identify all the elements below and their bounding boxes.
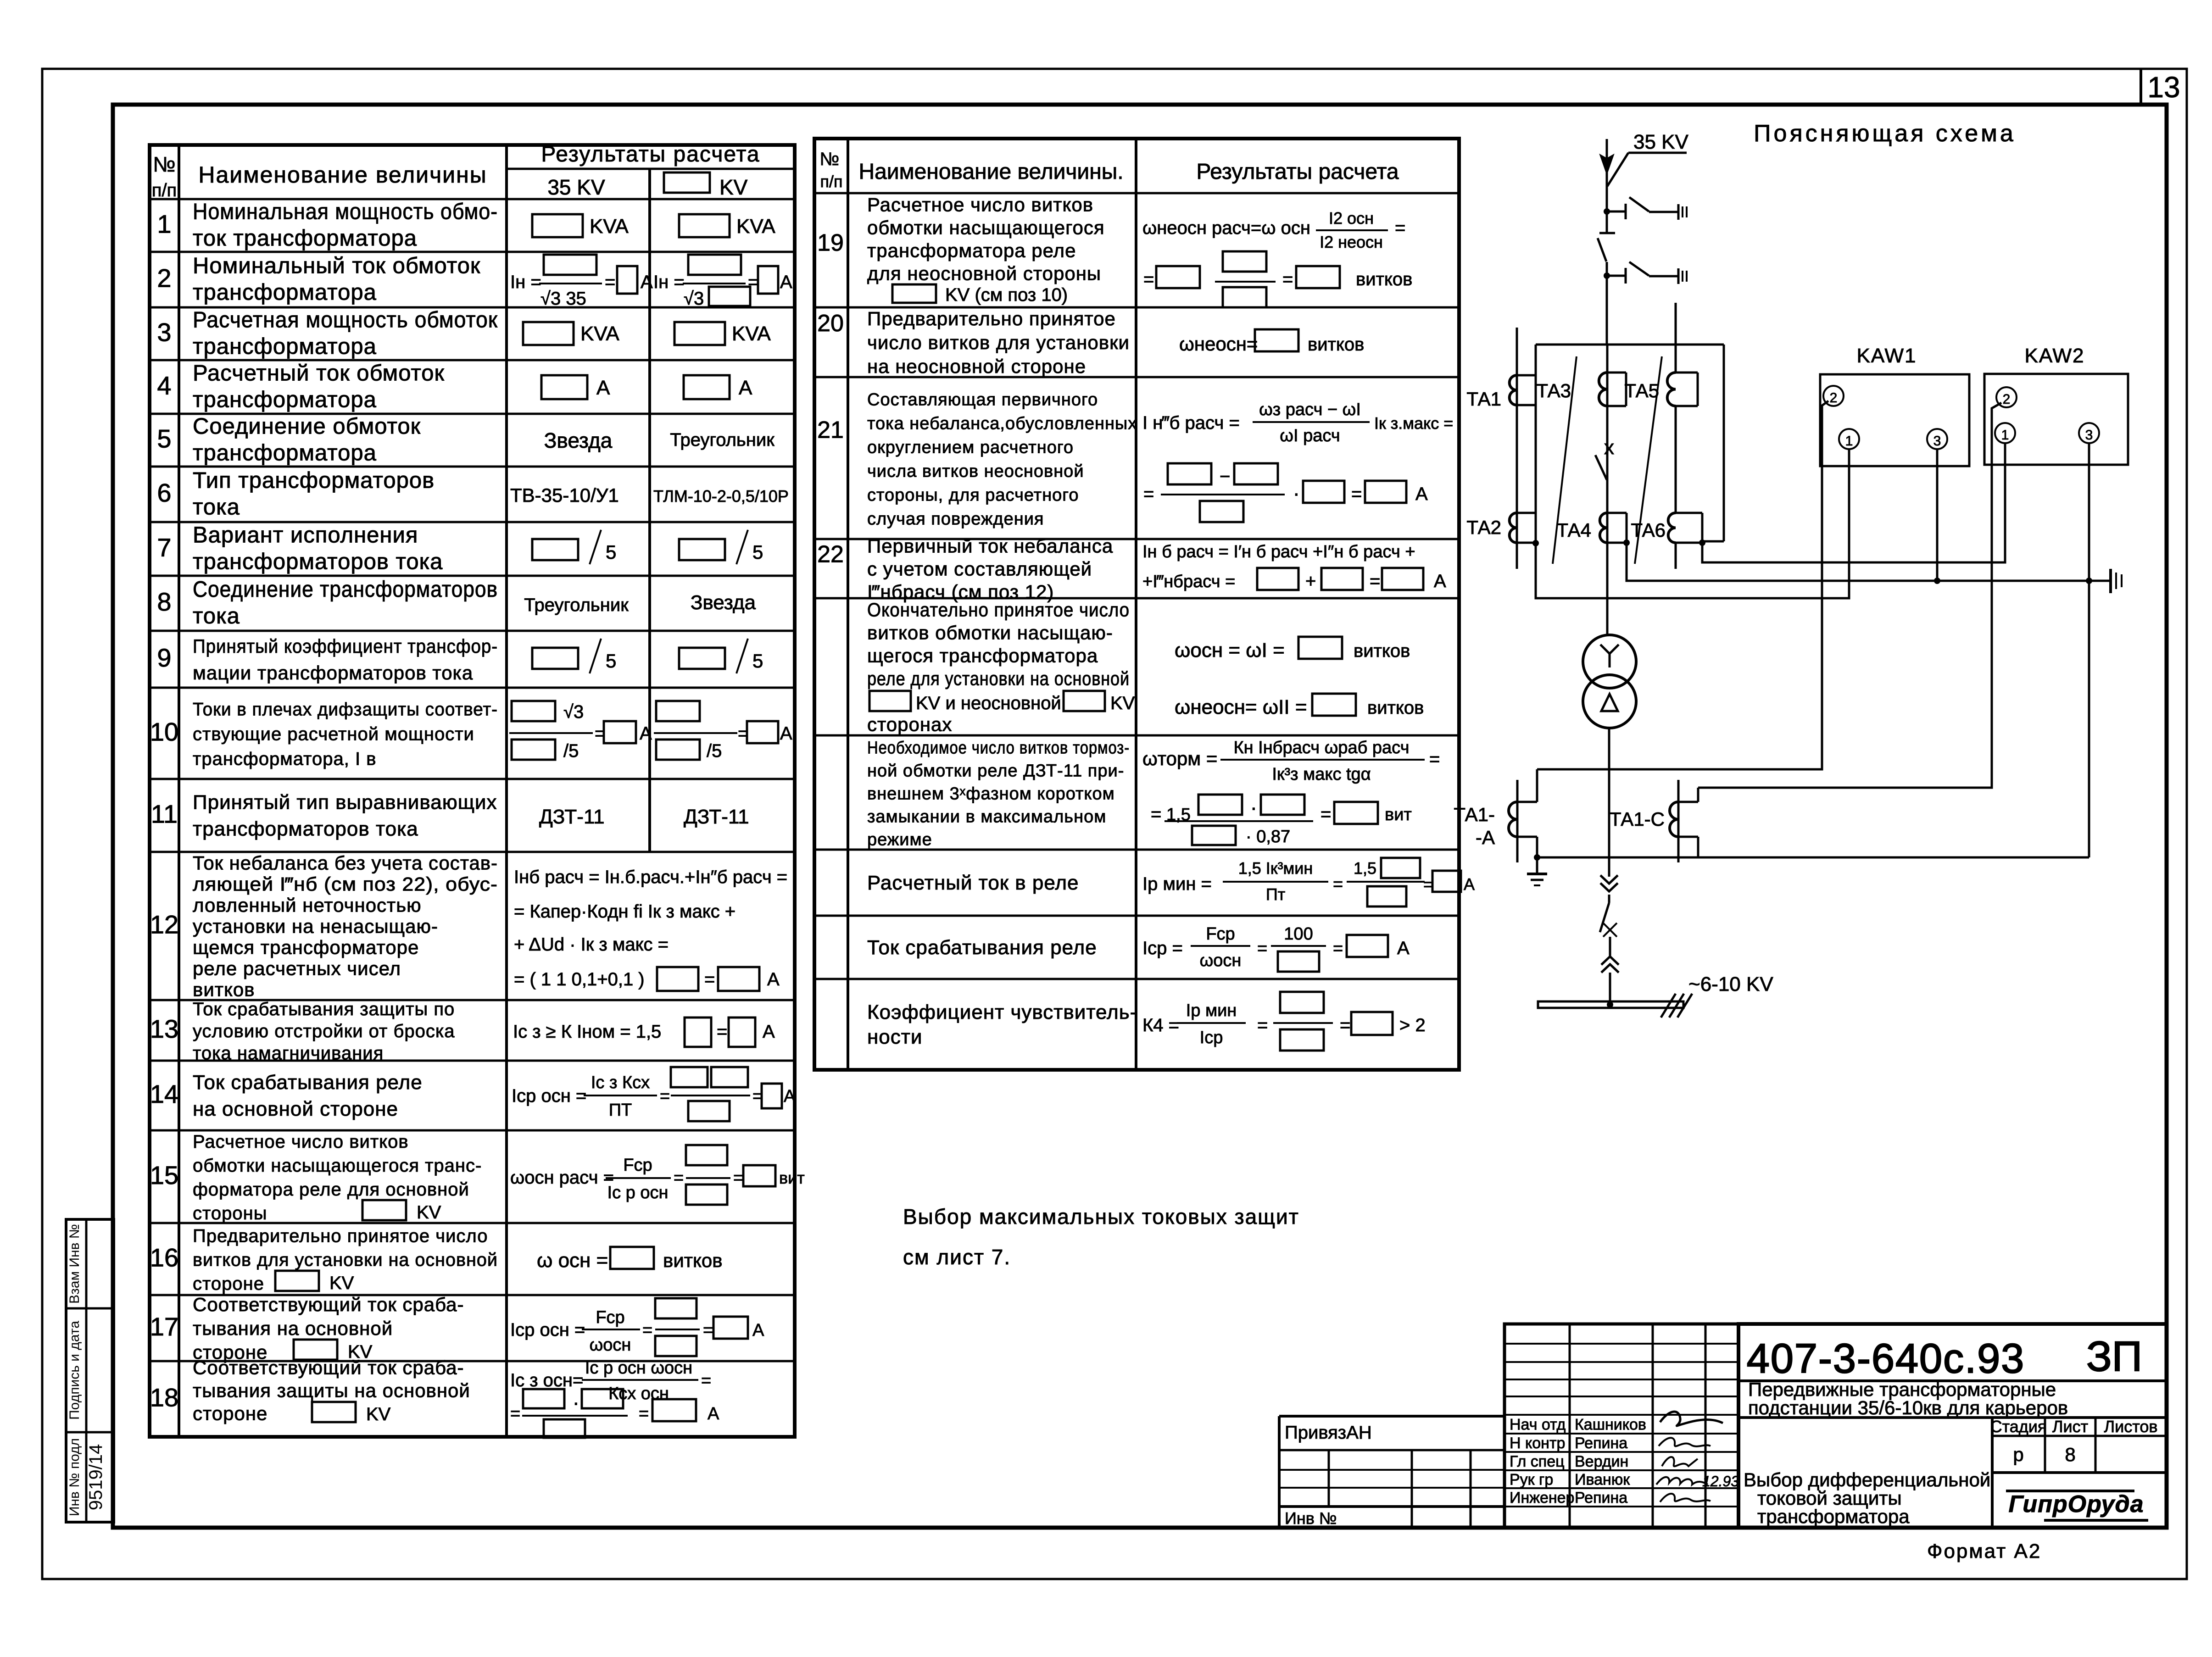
wire LV common bus: [1537, 856, 2089, 859]
svg-text:Расчетный ток обмоток: Расчетный ток обмоток: [193, 361, 445, 386]
wire common neutral with earth: [1627, 543, 2122, 593]
svg-text:№: №: [820, 149, 840, 169]
svg-text:I2 осн: I2 осн: [1329, 209, 1374, 228]
right table row 25: [867, 858, 1475, 906]
svg-text:ствующие расчетной мощности: ствующие расчетной мощности: [193, 724, 474, 745]
svg-text:подстанции 35/6-10кв для карье: подстанции 35/6-10кв для карьеров: [1748, 1397, 2068, 1418]
svg-text:KAW1: KAW1: [1856, 345, 1917, 367]
right table row 19: [817, 194, 1412, 308]
svg-text:витков: витков: [1354, 641, 1410, 661]
svg-text:трансформатора, I в: трансформатора, I в: [193, 749, 376, 769]
svg-text:Первичный ток небаланса: Первичный ток небаланса: [867, 535, 1113, 557]
svg-text:5: 5: [752, 650, 763, 672]
right table row 24: [867, 738, 1440, 850]
link slash TA5-TA6: [1635, 356, 1662, 564]
earth ground under TA1-A: [1527, 857, 1547, 885]
svg-text:число витков для установки: число витков для установки: [867, 332, 1130, 353]
svg-text:Необходимое число витков тормо: Необходимое число витков тормоз-: [867, 739, 1130, 758]
svg-text:Расчетное число витков: Расчетное число витков: [867, 194, 1093, 216]
svg-text:A: A: [1464, 875, 1475, 894]
cable termination chevrons down: [1600, 875, 1618, 891]
svg-text:Ток срабатывания реле: Ток срабатывания реле: [193, 1071, 423, 1094]
svg-text:8: 8: [2065, 1444, 2075, 1465]
svg-text:мации трансформаторов тока: мации трансформаторов тока: [193, 662, 473, 684]
left table row 10: [150, 700, 792, 769]
svg-text:для неосновной стороны: для неосновной стороны: [867, 263, 1101, 284]
svg-text:A: A: [640, 723, 652, 744]
svg-text:=: =: [605, 272, 615, 292]
svg-text:Составляющая первичного: Составляющая первичного: [867, 390, 1098, 410]
left table row 6: [157, 468, 789, 520]
svg-text:Предварительно принятое: Предварительно принятое: [867, 308, 1116, 329]
svg-text:5: 5: [752, 541, 763, 563]
svg-text:ДЗТ-11: ДЗТ-11: [684, 806, 749, 828]
svg-text:KV: KV: [366, 1404, 391, 1424]
svg-text:Вердин: Вердин: [1575, 1453, 1628, 1470]
svg-text:Ксх осн: Ксх осн: [608, 1384, 669, 1403]
svg-text:=: =: [642, 1321, 652, 1340]
svg-text:KVA: KVA: [580, 323, 619, 345]
wire transformer to LV: [1608, 728, 1610, 877]
svg-text:Результаты расчета: Результаты расчета: [1196, 160, 1399, 184]
cable termination chevrons up: [1601, 956, 1619, 1002]
svg-text:тывания на основной: тывания на основной: [193, 1318, 393, 1339]
svg-text:Принятый коэффициент трансфор-: Принятый коэффициент трансфор-: [193, 635, 498, 657]
svg-text:5: 5: [606, 541, 616, 563]
svg-text:9: 9: [157, 643, 171, 672]
left table row 12: [150, 852, 787, 1001]
svg-text:=: =: [510, 1404, 520, 1423]
svg-text:12: 12: [150, 910, 178, 939]
svg-text:внешнем 3ˣфазном коротком: внешнем 3ˣфазном коротком: [867, 784, 1115, 804]
right table row 27: [867, 992, 1426, 1051]
left table row 18: [150, 1357, 719, 1438]
svg-text:/5: /5: [563, 741, 579, 761]
svg-text:1,5: 1,5: [1354, 859, 1376, 878]
svg-text:ωнеосн= ωII =: ωнеосн= ωII =: [1175, 696, 1307, 718]
svg-text:14: 14: [150, 1079, 178, 1108]
svg-text:Iнб расч = Iн.б.расч.+Iн″б рас: Iнб расч = Iн.б.расч.+Iн″б расч =: [514, 867, 787, 887]
svg-text:Соединение обмоток: Соединение обмоток: [193, 414, 421, 439]
signature table grid: [1504, 1324, 1738, 1528]
svg-text:ПТ: ПТ: [609, 1101, 632, 1120]
svg-text:=: =: [660, 1087, 670, 1106]
svg-text:ловленный неточностью: ловленный неточностью: [193, 895, 422, 916]
svg-text:A: A: [780, 272, 792, 292]
svg-text:Расчетное число витков: Расчетное число витков: [193, 1132, 409, 1152]
svg-text:ωнеосн=: ωнеосн=: [1179, 333, 1258, 355]
svg-text:KV и неосновной: KV и неосновной: [916, 693, 1061, 713]
svg-text:=: =: [1429, 749, 1440, 769]
svg-text:A: A: [780, 723, 792, 744]
left margin stamp boxes: [66, 1219, 114, 1522]
current transformer TA2: [1466, 513, 1539, 546]
svg-text:3: 3: [157, 318, 171, 347]
schematic title: [1754, 120, 2016, 147]
note text see sheet 7: [903, 1205, 1299, 1269]
wire KAW2 pin2 to TA1-C top: [1698, 403, 2001, 788]
svg-text:1: 1: [1845, 434, 1853, 449]
svg-text:К4 =: К4 =: [1142, 1015, 1179, 1035]
svg-text:2: 2: [157, 264, 171, 293]
svg-text:35 KV: 35 KV: [1633, 131, 1689, 153]
left table row 11: [151, 791, 749, 840]
svg-text:вит: вит: [779, 1168, 805, 1187]
svg-text:KAW2: KAW2: [2024, 345, 2084, 367]
svg-text:тывания защиты на основной: тывания защиты на основной: [193, 1380, 470, 1401]
svg-text:ляющей I‴нб (см поз 22), обус-: ляющей I‴нб (см поз 22), обус-: [193, 873, 498, 895]
svg-text:=: =: [1370, 571, 1380, 591]
svg-text:KV: KV: [417, 1202, 441, 1223]
svg-text:A: A: [752, 1321, 764, 1340]
svg-text:3: 3: [1933, 434, 1941, 449]
svg-text:Принятый тип выравнивающих: Принятый тип выравнивающих: [193, 791, 497, 814]
svg-text:100: 100: [1284, 924, 1313, 944]
left table row 17: [150, 1294, 764, 1363]
svg-text:=: =: [1257, 939, 1267, 958]
svg-text:=: =: [1321, 804, 1331, 824]
svg-text:Кн Iнбрасч ωраб расч: Кн Iнбрасч ωраб расч: [1233, 738, 1409, 757]
svg-text:Звезда: Звезда: [544, 428, 613, 452]
svg-text:сторонах: сторонах: [867, 714, 952, 735]
svg-text:407-3-640с.93: 407-3-640с.93: [1747, 1336, 2025, 1382]
svg-text:Результаты расчета: Результаты расчета: [541, 142, 760, 167]
svg-text:2: 2: [2003, 392, 2011, 407]
left table row 9: [157, 635, 763, 684]
svg-text:трансформаторов тока: трансформаторов тока: [193, 818, 418, 840]
svg-text:Стадия: Стадия: [1990, 1417, 2047, 1436]
svg-text:15: 15: [150, 1161, 178, 1190]
handwritten signatures: [1656, 1412, 1739, 1502]
svg-text:12.93: 12.93: [1702, 1473, 1739, 1490]
svg-text:·: ·: [573, 1391, 579, 1414]
left table row 16: [150, 1226, 723, 1294]
svg-text:A: A: [784, 1087, 796, 1106]
svg-text:ЗП: ЗП: [2086, 1333, 2142, 1380]
svg-text:ω осн =: ω осн =: [537, 1249, 608, 1272]
right table row 20: [817, 308, 1364, 377]
signature table labels and names: [1510, 1416, 1646, 1507]
svg-text:=: =: [1333, 939, 1343, 958]
svg-text:22: 22: [817, 541, 844, 568]
svg-text:Iс р осн: Iс р осн: [607, 1183, 669, 1202]
svg-text:A: A: [767, 969, 780, 990]
svg-text:11: 11: [151, 800, 178, 828]
svg-text:ТА5: ТА5: [1624, 380, 1659, 401]
svg-text:/5: /5: [707, 741, 722, 761]
svg-text:ωосн: ωосн: [590, 1335, 631, 1355]
svg-text:1,5 Iк³мин: 1,5 Iк³мин: [1238, 859, 1313, 878]
svg-text:=: =: [639, 1404, 649, 1423]
svg-text:A: A: [641, 272, 653, 292]
svg-text:с учетом составляющей: с учетом составляющей: [867, 558, 1092, 580]
svg-text:форматора реле для основной: форматора реле для основной: [193, 1179, 469, 1200]
svg-text:= ( 1 1 0,1+0,1 ): = ( 1 1 0,1+0,1 ): [514, 969, 645, 990]
svg-text:стороне: стороне: [193, 1274, 264, 1294]
svg-text:ности: ности: [867, 1026, 923, 1048]
svg-text:Инв №: Инв №: [1285, 1509, 1337, 1528]
svg-text:=: =: [1340, 1015, 1350, 1035]
svg-text:Расчетный ток в реле: Расчетный ток в реле: [867, 872, 1079, 894]
svg-text:ωосн расч =: ωосн расч =: [510, 1168, 614, 1188]
svg-text:Fср: Fср: [596, 1308, 624, 1327]
svg-text:ωнеосн расч=ω осн: ωнеосн расч=ω осн: [1142, 218, 1310, 238]
left table row 1: [157, 200, 775, 251]
svg-text:Подпись и дата: Подпись и дата: [67, 1321, 82, 1420]
svg-text:√3 35: √3 35: [540, 289, 586, 309]
svg-text:ωI расч: ωI расч: [1280, 426, 1340, 445]
svg-text:=: =: [701, 1371, 711, 1390]
svg-text:KVA: KVA: [590, 215, 629, 238]
svg-text:щегося трансформатора: щегося трансформатора: [867, 645, 1098, 667]
current transformer TA1: [1466, 328, 1536, 569]
page frame inner thick: [113, 105, 2167, 1528]
left table row 3: [157, 308, 771, 359]
svg-text:установки на ненасыщаю-: установки на ненасыщаю-: [193, 916, 438, 937]
svg-text:1: 1: [2001, 428, 2009, 443]
svg-text:+ ΔUd · Iк з макс =: + ΔUd · Iк з макс =: [514, 934, 669, 955]
svg-text:витков: витков: [193, 979, 255, 1001]
svg-text:A: A: [708, 1404, 719, 1423]
svg-text:Н контр: Н контр: [1510, 1435, 1565, 1452]
svg-text:Листов: Листов: [2104, 1417, 2158, 1436]
svg-text:ДЗТ-11: ДЗТ-11: [539, 806, 605, 828]
svg-text:Коэффициент чувствитель-: Коэффициент чувствитель-: [867, 1001, 1137, 1023]
svg-text:Иванюк: Иванюк: [1575, 1471, 1630, 1489]
svg-text:Номинальный ток обмоток: Номинальный ток обмоток: [193, 254, 480, 278]
svg-text:ωторм =: ωторм =: [1142, 748, 1217, 769]
svg-text:тока: тока: [193, 604, 240, 628]
svg-text:ток трансформатора: ток трансформатора: [193, 226, 417, 251]
svg-text:KV (см поз 10): KV (см поз 10): [945, 285, 1068, 305]
svg-text:обмотки насыщающегося: обмотки насыщающегося: [867, 217, 1105, 239]
svg-text:Инженер: Инженер: [1510, 1489, 1574, 1507]
svg-text:замыкании в максимальном: замыкании в максимальном: [867, 807, 1106, 827]
disconnector QS1 with earthing: [1604, 197, 1687, 220]
wire bus to CT block: [1606, 276, 1608, 345]
svg-text:Гл спец: Гл спец: [1510, 1453, 1565, 1470]
svg-text:Кашников: Кашников: [1575, 1416, 1646, 1434]
svg-text:Iср: Iср: [1200, 1028, 1223, 1047]
svg-text:ПривязАН: ПривязАН: [1285, 1423, 1372, 1443]
svg-text:4: 4: [157, 371, 171, 400]
svg-text:трансформатора: трансформатора: [193, 280, 377, 305]
svg-text:Лист: Лист: [2052, 1417, 2088, 1436]
svg-text:Ток срабатывания защиты по: Ток срабатывания защиты по: [193, 999, 455, 1019]
CT block outline: [1536, 345, 1724, 543]
svg-text:Формат А2: Формат А2: [1927, 1540, 2041, 1562]
right table row 21: [817, 390, 1453, 529]
svg-text:округлением расчетного: округлением расчетного: [867, 438, 1074, 457]
format A2 label: [1927, 1540, 2041, 1562]
right table header text: [820, 149, 1399, 191]
svg-text:I2 неосн: I2 неосн: [1320, 233, 1383, 251]
title block main stamp grid: [1738, 1324, 2167, 1528]
left table row 4: [157, 361, 752, 412]
switch X inside block: [1595, 406, 1614, 513]
svg-text:Звезда: Звезда: [691, 591, 756, 614]
svg-text:числа витков неосновной: числа витков неосновной: [867, 462, 1084, 481]
svg-text:17: 17: [150, 1312, 178, 1341]
svg-text:Расчетная мощность обмоток: Расчетная мощность обмоток: [193, 308, 498, 333]
svg-text:№: №: [153, 152, 175, 176]
svg-text:Вариант исполнения: Вариант исполнения: [193, 523, 418, 548]
svg-text:на основной стороне: на основной стороне: [193, 1098, 398, 1120]
right calculation table grid: [814, 139, 1459, 1070]
svg-text:+: +: [1305, 571, 1316, 591]
svg-text:щемся трансформаторе: щемся трансформаторе: [193, 937, 419, 958]
current transformer TA1-A: [1454, 769, 1540, 862]
svg-text:-А: -А: [1476, 827, 1495, 848]
left table row 5: [157, 414, 774, 466]
svg-text:· 0,87: · 0,87: [1246, 827, 1290, 846]
svg-text:10: 10: [150, 717, 178, 746]
svg-text:витков: витков: [663, 1250, 723, 1271]
title block doc number: [1747, 1333, 2142, 1382]
svg-text:Iс з ≥ К Iном = 1,5: Iс з ≥ К Iном = 1,5: [513, 1022, 661, 1042]
svg-text:KVA: KVA: [732, 323, 771, 345]
svg-text:трансформатора: трансформатора: [193, 334, 377, 359]
wire KAW2 pin3 to common: [2086, 443, 2092, 857]
svg-text:ТЛМ-10-2-0,5/10Р: ТЛМ-10-2-0,5/10Р: [653, 487, 789, 506]
disconnector QS2 with earthing: [1598, 211, 1687, 284]
svg-text:трансформатора: трансформатора: [193, 441, 377, 466]
binding section grid: [1279, 1416, 1504, 1528]
svg-text:трансформатора: трансформатора: [193, 388, 377, 412]
svg-text:=: =: [1257, 1015, 1268, 1035]
left calculation table grid: [150, 145, 795, 1437]
svg-text:Нач отд: Нач отд: [1510, 1416, 1566, 1434]
svg-text:витков: витков: [1308, 334, 1364, 355]
svg-text:витков: витков: [1367, 698, 1424, 718]
svg-text:Взам Инв №: Взам Инв №: [67, 1224, 82, 1304]
label 35 KV incoming line: [1607, 131, 1689, 186]
svg-text:Iср =: Iср =: [1142, 938, 1183, 958]
svg-text:A: A: [763, 1022, 775, 1042]
wire KAW1 pin1 to block left bottom: [1536, 449, 1849, 598]
svg-text:3: 3: [2085, 428, 2093, 443]
svg-text:ωз расч − ωI: ωз расч − ωI: [1259, 400, 1361, 419]
svg-text:A: A: [1397, 938, 1410, 958]
title block project name: [1748, 1379, 2068, 1418]
GIPRORUDA logo: [2006, 1491, 2148, 1520]
svg-text:ТА1: ТА1: [1466, 388, 1501, 410]
svg-text:Iср осн =: Iср осн =: [512, 1086, 586, 1106]
svg-text:5: 5: [606, 650, 616, 672]
svg-text:ТА1-: ТА1-: [1454, 804, 1495, 825]
svg-text:Репина: Репина: [1575, 1435, 1627, 1452]
svg-text:витков: витков: [1356, 269, 1412, 289]
svg-text:вит: вит: [1385, 805, 1412, 824]
svg-text:=: =: [1282, 269, 1293, 289]
left table row 7: [157, 523, 763, 574]
right table row 26: [867, 924, 1410, 972]
svg-text:Fср: Fср: [1206, 924, 1235, 944]
svg-text:Инв № подл: Инв № подл: [67, 1438, 82, 1516]
svg-text:Треугольник: Треугольник: [670, 430, 774, 450]
svg-text:Предварительно принятое число: Предварительно принятое число: [193, 1226, 488, 1246]
svg-text:Репина: Репина: [1575, 1489, 1627, 1507]
svg-text:= Капер·Кодн fi Iк з макс +: = Капер·Кодн fi Iк з макс +: [514, 901, 735, 922]
svg-text:ГипрОруда: ГипрОруда: [2008, 1491, 2144, 1518]
svg-text:16: 16: [150, 1243, 178, 1272]
svg-text:=: =: [704, 969, 715, 990]
circuit breaker on LV feeder: [1600, 895, 1617, 956]
svg-text:·: ·: [1293, 482, 1300, 505]
svg-text:−: −: [1220, 467, 1230, 487]
svg-text:7: 7: [157, 533, 171, 562]
svg-text:на неосновной стороне: на неосновной стороне: [867, 356, 1086, 377]
svg-text:тока намагничивания: тока намагничивания: [193, 1043, 384, 1063]
svg-text:стороны: стороны: [193, 1203, 267, 1223]
svg-text:=: =: [674, 1168, 684, 1188]
svg-text:ωосн: ωосн: [1200, 951, 1242, 970]
svg-text:тока: тока: [193, 495, 240, 520]
svg-text:Iср осн =: Iср осн =: [510, 1320, 585, 1340]
svg-text:Iс з осн=: Iс з осн=: [510, 1370, 583, 1390]
svg-text:Рук гр: Рук гр: [1510, 1471, 1553, 1489]
svg-text:=: =: [1151, 804, 1161, 824]
current transformer TA1-C: [1610, 780, 1698, 862]
svg-text:13: 13: [150, 1014, 178, 1043]
svg-text:режиме: режиме: [867, 830, 932, 850]
svg-text:Выбор максимальных токовых защ: Выбор максимальных токовых защит: [903, 1205, 1299, 1229]
svg-text:ной обмотки реле ДЗТ-11 при-: ной обмотки реле ДЗТ-11 при-: [867, 762, 1124, 781]
svg-text:5: 5: [157, 424, 171, 453]
svg-text:витков для установки на основн: витков для установки на основной: [193, 1250, 498, 1270]
wire TA5 line inside block: [1675, 406, 1677, 513]
svg-text:=: =: [1143, 484, 1154, 504]
svg-text:Соединение трансформаторов: Соединение трансформаторов: [193, 577, 498, 602]
left margin stamp labels: [67, 1224, 106, 1516]
svg-text:~6-10 KV: ~6-10 KV: [1688, 973, 1773, 995]
left table header text: [152, 142, 760, 200]
svg-text:Iс з Ксх: Iс з Ксх: [591, 1073, 650, 1092]
svg-text:=: =: [717, 1022, 727, 1042]
wire KAW1 pin2 to TA1-A top: [1537, 401, 1828, 769]
svg-text:Пт: Пт: [1266, 885, 1285, 904]
svg-text:трансформатора: трансформатора: [1757, 1506, 1910, 1527]
svg-text:=: =: [733, 1168, 743, 1188]
svg-text:Наименование величины.: Наименование величины.: [858, 160, 1123, 184]
svg-text:x: x: [1604, 436, 1614, 459]
svg-text:трансформатора реле: трансформатора реле: [867, 240, 1076, 261]
svg-text:Тип трансформаторов: Тип трансформаторов: [193, 468, 435, 493]
right table row 22: [817, 535, 1446, 603]
svg-text:случая повреждения: случая повреждения: [867, 510, 1044, 529]
wire incoming bus top: [1600, 139, 1613, 211]
wire KAW2 pin1 to TA6: [1702, 443, 2005, 562]
relay box KAW2: [1984, 345, 2128, 465]
svg-text:р: р: [2013, 1444, 2023, 1465]
svg-text:реле для установки на основной: реле для установки на основной: [867, 668, 1130, 689]
svg-text:√3: √3: [563, 702, 584, 722]
svg-text:Номинальная мощность обмо-: Номинальная мощность обмо-: [193, 200, 498, 224]
svg-text:> 2: > 2: [1399, 1015, 1426, 1035]
left table row 14: [150, 1067, 796, 1121]
svg-text:Iн =: Iн =: [653, 272, 685, 292]
svg-text:Поясняющая схема: Поясняющая схема: [1754, 120, 2016, 147]
svg-text:обмотки насыщающегося транс-: обмотки насыщающегося транс-: [193, 1156, 482, 1176]
svg-text:ТА1-С: ТА1-С: [1610, 808, 1665, 830]
svg-text:35 KV: 35 KV: [547, 175, 605, 199]
svg-text:Iр мин =: Iр мин =: [1142, 874, 1212, 894]
current transformer TA5: [1624, 303, 1698, 406]
svg-text:+I‴нбрасч =: +I‴нбрасч =: [1142, 572, 1235, 591]
svg-text:A: A: [596, 377, 610, 399]
svg-text:A: A: [1415, 484, 1428, 504]
svg-text:8: 8: [157, 587, 171, 616]
